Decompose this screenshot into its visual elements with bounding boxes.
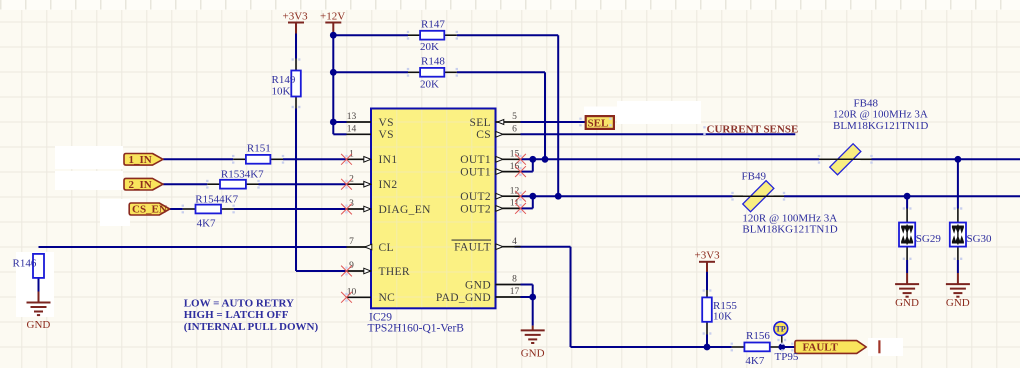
resistor R149 (295, 59, 297, 71)
svg-text:VS: VS (379, 117, 394, 129)
svg-text:(INTERNAL PULL DOWN): (INTERNAL PULL DOWN) (184, 321, 319, 333)
white patch around R146 and GND (16, 252, 54, 317)
pin 8 GND (right) (496, 284, 521, 286)
wire R148 vertical to OUT1 (544, 72, 546, 159)
pin 14 VS (left) (347, 133, 372, 135)
svg-text:8: 8 (512, 275, 517, 285)
pin 4 FAULT (right) (496, 246, 521, 248)
svg-text:R147: R147 (421, 19, 445, 31)
svg-text:TP: TP (775, 325, 785, 334)
svg-text:IN1: IN1 (379, 154, 398, 166)
svg-text:4K7: 4K7 (745, 355, 764, 367)
svg-text:SG29: SG29 (916, 233, 942, 245)
pin 13 VS (left) (347, 121, 372, 123)
wire FAULT net horizontal from pin 4 (515, 246, 571, 248)
ground below R146 (38, 292, 40, 303)
junction +12V/R147 (330, 32, 337, 39)
wire CS net (pin6 to CURRENT SENSE) (521, 133, 796, 135)
svg-text:R1544K7: R1544K7 (195, 193, 238, 205)
junction FAULT/TP95 (778, 344, 785, 351)
junction OUT2/SG29 (904, 193, 911, 200)
port 1_IN (124, 154, 163, 166)
wire pin11 join (521, 207, 533, 209)
junction OUT2 pins (529, 193, 536, 200)
white patch left of CURRENT SENSE label (617, 101, 701, 124)
svg-text:TPS2H160-Q1-VerB: TPS2H160-Q1-VerB (368, 323, 465, 335)
pin 10 NC (left) (347, 296, 372, 298)
wire R148 row left (333, 71, 408, 73)
resistor R156 (732, 346, 745, 348)
svg-text:DIAG_EN: DIAG_EN (379, 204, 432, 216)
pin 11 OUT2 (right) (496, 207, 521, 209)
svg-text:OUT1: OUT1 (460, 167, 491, 179)
svg-text:GND: GND (465, 279, 491, 291)
junction +12V/R148 (330, 69, 337, 76)
svg-text:PAD_GND: PAD_GND (436, 292, 491, 304)
wire +12V to pin 13 (333, 121, 346, 123)
ferrite bead FB48 (819, 158, 830, 160)
connection markers (407, 31, 409, 40)
wire 3V3/R149 column upper (295, 33, 297, 59)
surge arrester SG29 (906, 209, 908, 223)
port SEL (586, 116, 614, 129)
svg-text:12: 12 (510, 186, 520, 196)
pin 7 CL (left) (347, 246, 372, 248)
svg-text:11: 11 (510, 199, 519, 209)
test point TP95 (774, 322, 788, 336)
junction +12V/pin13 (330, 119, 337, 126)
ground below SG30 (957, 273, 959, 284)
resistor R151 (233, 158, 246, 160)
wire SG30 below (957, 260, 959, 273)
svg-text:FAULT: FAULT (803, 342, 839, 354)
svg-text:CURRENT SENSE: CURRENT SENSE (707, 123, 799, 135)
svg-text:120R @ 100MHz 3A: 120R @ 100MHz 3A (833, 109, 928, 121)
svg-text:4K7: 4K7 (197, 218, 216, 230)
svg-text:HIGH = LATCH OFF: HIGH = LATCH OFF (184, 309, 289, 321)
svg-text:GND: GND (521, 348, 545, 360)
white patch left of port CS_EN (100, 199, 130, 226)
svg-text:R146: R146 (13, 258, 37, 270)
pin 17 PAD_GND (right) (496, 296, 521, 298)
power +3V3 (left) (288, 23, 304, 34)
ground below IC (GND/PAD_GND) (532, 326, 534, 331)
port CS_EN (129, 203, 170, 215)
wire FAULT net bottom left (571, 346, 732, 348)
svg-text:1_IN: 1_IN (129, 154, 152, 166)
svg-text:5: 5 (512, 112, 517, 122)
svg-text:VS: VS (379, 129, 394, 141)
wire R147 row left (333, 34, 408, 36)
svg-text:SEL: SEL (588, 117, 609, 129)
junction GND pins (529, 294, 536, 301)
svg-text:17: 17 (510, 287, 520, 297)
port 2_IN (124, 178, 163, 190)
svg-text:R156: R156 (746, 330, 770, 342)
wire +12V rail vertical (332, 33, 334, 134)
resistor R146 (33, 254, 44, 278)
svg-text:TP95: TP95 (775, 351, 799, 363)
power +12V (325, 23, 341, 34)
wire SG29 vertical (906, 196, 908, 208)
svg-text:4: 4 (512, 237, 517, 247)
surge arrester SG30 (957, 209, 959, 223)
junction FAULT/R155 (704, 344, 711, 351)
wire THER horizontal (296, 270, 347, 272)
svg-text:R151: R151 (247, 143, 271, 155)
svg-text:FB49: FB49 (742, 171, 767, 183)
wire R147 row right (457, 34, 558, 36)
svg-text:10K: 10K (713, 310, 732, 322)
junction OUT1/SG30 (955, 156, 962, 163)
white patch right of FAULT port (868, 338, 903, 356)
wire SG29 below (906, 260, 908, 273)
wire TP stem (781, 336, 783, 347)
svg-text:+12V: +12V (320, 11, 345, 23)
svg-text:10K: 10K (272, 86, 291, 98)
svg-text:R1534K7: R1534K7 (221, 168, 264, 180)
pin 9 THER (left) (347, 270, 372, 272)
wire pin17 to GND (521, 296, 533, 298)
pin 16 OUT1 (right) (496, 171, 521, 173)
svg-text:BLM18KG121TN1D: BLM18KG121TN1D (833, 120, 928, 132)
svg-text:14: 14 (347, 125, 357, 135)
wire OUT2 net right of FB49 (784, 195, 1020, 197)
svg-text:NC: NC (379, 292, 396, 304)
svg-text:+3V3: +3V3 (695, 250, 721, 262)
svg-text:13: 13 (347, 112, 357, 122)
svg-text:GND: GND (946, 297, 970, 309)
wire 1_IN to R151 (163, 158, 233, 160)
wire R154 to pin 3 (234, 208, 347, 210)
pin 2 IN2 (left) (347, 183, 372, 185)
svg-text:CS: CS (476, 129, 491, 141)
white patch left of port 1_IN (55, 146, 123, 169)
svg-text:R149: R149 (272, 74, 296, 86)
svg-text:GND: GND (895, 297, 919, 309)
ground below SG29 (906, 273, 908, 284)
wire CL net (39, 246, 347, 248)
wire pin16 join (521, 171, 533, 173)
wire R148 row right (457, 71, 545, 73)
svg-text:R148: R148 (421, 56, 445, 68)
svg-text:OUT1: OUT1 (460, 154, 491, 166)
junction OUT1/R148 (542, 156, 549, 163)
svg-text:15: 15 (510, 150, 520, 160)
wire R149 to THER vertical (295, 109, 297, 272)
svg-text:CL: CL (379, 242, 394, 254)
svg-text:OUT2: OUT2 (460, 191, 491, 203)
svg-text:7: 7 (349, 237, 354, 247)
svg-text:FAULT: FAULT (454, 242, 491, 254)
port FAULT (795, 341, 866, 354)
svg-text:LOW = AUTO RETRY: LOW = AUTO RETRY (184, 298, 294, 310)
svg-text:SEL: SEL (470, 117, 492, 129)
svg-text:20K: 20K (420, 78, 439, 90)
wire CS_EN to R154 (170, 208, 183, 210)
svg-text:SG30: SG30 (967, 233, 993, 245)
wire FAULT net vertical (570, 247, 572, 347)
svg-text:OUT2: OUT2 (460, 203, 491, 215)
junction OUT2/R147 (555, 193, 562, 200)
svg-text:2_IN: 2_IN (129, 179, 152, 191)
svg-text:BLM18KG121TN1D: BLM18KG121TN1D (742, 224, 837, 236)
wire pin5 to SEL port (521, 121, 586, 123)
svg-text:20K: 20K (420, 41, 439, 53)
wire R153 to pin 2 (259, 183, 347, 185)
wire pin8 join (521, 284, 533, 286)
resistor R155 (706, 290, 708, 297)
wire OUT1 net right of FB48 (872, 158, 1020, 160)
wire R151 to pin 1 (283, 158, 347, 160)
white patch left of port 2_IN (55, 171, 123, 190)
ferrite bead FB49 (733, 195, 744, 197)
wire R155 column lower (706, 335, 708, 348)
pin 15 OUT1 (right) (496, 158, 521, 160)
wire FAULT net bottom right (782, 346, 795, 348)
wire R146 bottom to GND (38, 278, 40, 292)
wire R155 column upper (706, 271, 708, 290)
svg-text:THER: THER (379, 266, 410, 278)
junction OUT1 pins (529, 156, 536, 163)
wire OUT1 net left (521, 158, 820, 160)
wire +12V to pin 14 (333, 133, 346, 135)
pin 3 DIAG_EN (left) (347, 208, 372, 210)
wire OUT2 net left (521, 195, 733, 197)
pin 5 SEL (right) (496, 121, 521, 123)
svg-text:16: 16 (510, 162, 520, 172)
pin 12 OUT2 (right) (496, 195, 521, 197)
pin 1 IN1 (left) (347, 158, 372, 160)
wire 2_IN to R153 (163, 183, 207, 185)
resistor R147 (408, 34, 420, 36)
svg-text:GND: GND (27, 319, 51, 331)
svg-text:6: 6 (512, 125, 517, 135)
resistor R154 (183, 208, 196, 210)
pin 6 CS (right) (496, 133, 521, 135)
resistor R153 (207, 183, 220, 185)
svg-text:CS_EN: CS_EN (132, 204, 167, 216)
wire SG30 vertical (957, 159, 959, 208)
svg-text:+3V3: +3V3 (283, 11, 309, 23)
wire R147 vertical to OUT2 (557, 35, 559, 196)
resistor R148 (408, 71, 420, 73)
svg-text:IN2: IN2 (379, 179, 398, 191)
power +3V3 (right) (699, 262, 715, 272)
